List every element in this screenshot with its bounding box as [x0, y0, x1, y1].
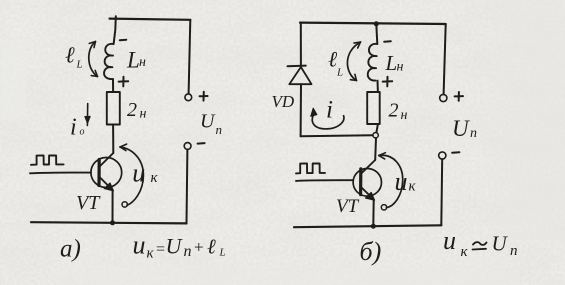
pulse train symbol (a)	[31, 155, 64, 164]
svg-text:к: к	[147, 246, 155, 262]
terminal - (b)	[439, 152, 446, 159]
label U_П (b)	[452, 116, 477, 141]
diode VD (b): cathode bar	[288, 65, 306, 68]
transistor VT (a): collector stroke	[100, 153, 114, 167]
i0 current arrow (a)	[85, 104, 90, 126]
transistor VT (b): emitter stroke with arrow	[361, 187, 375, 200]
wire: diode branch upper (b)	[300, 23, 302, 66]
transistor VT (b): collector stroke	[361, 160, 375, 174]
svg-text:L: L	[126, 48, 140, 73]
svg-text:VT: VT	[336, 196, 360, 217]
svg-text:п: п	[470, 126, 477, 141]
label VT (b)	[336, 196, 360, 217]
wire: - terminal to bottom rail (b)	[440, 159, 443, 225]
label i (b)	[326, 97, 333, 124]
svg-text:к: к	[151, 170, 159, 186]
diode VD (b): triangle	[289, 67, 311, 84]
wire: bottom rail (a)	[31, 222, 187, 223]
label e_L (a)	[65, 43, 83, 71]
svg-text:п: п	[216, 122, 223, 137]
svg-text:L: L	[385, 51, 398, 75]
svg-text:VT: VT	[76, 192, 101, 214]
svg-text:н: н	[401, 108, 408, 123]
wire: top junction to inductor (b)	[376, 24, 377, 44]
svg-text:U: U	[452, 116, 470, 141]
svg-text:=: =	[156, 241, 165, 258]
transistor VT (a): emitter stroke with arrow	[100, 177, 114, 191]
wire: bottom rail (b)	[294, 225, 441, 227]
svg-text:L: L	[76, 59, 83, 71]
plus polarity sign below inductor (b)	[383, 77, 393, 87]
svg-text:н: н	[140, 107, 147, 122]
e_L arc arrow (a)	[89, 42, 98, 77]
svg-text:а): а)	[60, 236, 81, 263]
e_L arc arrow (b)	[347, 42, 360, 81]
svg-text:u: u	[395, 167, 408, 196]
transistor VT (a): body circle	[91, 158, 122, 188]
label U_П (a)	[200, 111, 222, 138]
plus sign at terminal (a)	[200, 92, 208, 101]
svg-text:VD: VD	[272, 92, 295, 111]
value label z_H (a)	[127, 99, 147, 122]
value label L_H (b)	[385, 51, 404, 75]
label VT (a)	[76, 192, 101, 214]
svg-text:н: н	[397, 60, 404, 75]
svg-text:к: к	[409, 179, 417, 195]
resistor z_H (a)	[107, 92, 120, 125]
svg-text:o: o	[80, 127, 85, 138]
svg-text:2: 2	[389, 100, 399, 122]
junction dot bottom (a)	[110, 220, 115, 225]
wire: resistor to collector (a)	[112, 125, 114, 154]
svg-text:н: н	[139, 55, 146, 70]
svg-text:u: u	[133, 231, 146, 260]
label e_L (b)	[328, 47, 343, 79]
inductor L_H (a): coil	[104, 44, 114, 79]
svg-text:U: U	[166, 234, 184, 259]
pulse train symbol (b)	[296, 163, 325, 173]
svg-text:i: i	[326, 97, 333, 124]
svg-text:+: +	[194, 238, 204, 257]
svg-text:L: L	[336, 67, 343, 79]
wire: emitter to bottom rail (b)	[372, 199, 374, 226]
svg-text:ℓ: ℓ	[65, 43, 75, 68]
formula u_K = U_П + e_L	[133, 231, 226, 262]
node circle at freewheel junction (b)	[373, 133, 378, 138]
wire: top rail (b)	[300, 23, 446, 24]
transistor VT (a): base bar	[97, 160, 100, 186]
svg-text:ℓ: ℓ	[207, 235, 216, 259]
label u_K (a)	[132, 159, 158, 188]
formula u_K = U_П (b)	[443, 226, 518, 260]
wire: right vertical top to + terminal (b)	[444, 24, 446, 94]
wire: emitter to bottom rail (a)	[112, 190, 114, 223]
wire: resistor to node (b)	[376, 124, 378, 133]
wire: inductor to resistor (b)	[377, 81, 379, 92]
terminal + (a)	[185, 94, 192, 101]
caption a)	[60, 236, 81, 263]
svg-text:L: L	[219, 247, 226, 259]
u_K arc arrow around transistor (a)	[120, 144, 143, 207]
svg-text:u: u	[443, 226, 456, 255]
base wire from pulse source (b)	[296, 179, 353, 182]
wire: right vertical top to + terminal (a)	[189, 20, 191, 94]
svg-text:б): б)	[360, 237, 382, 266]
junction dot bottom (b)	[371, 224, 376, 229]
wire: left vertical from rail to inductor (a)	[114, 16, 116, 44]
svg-text:U: U	[200, 111, 216, 133]
label VD (b)	[272, 92, 295, 111]
minus sign at terminal (a)	[198, 142, 205, 145]
transistor VT (b): base bar	[359, 169, 362, 195]
label i0 (a)	[70, 115, 85, 141]
resistor z_H (b)	[367, 92, 380, 124]
terminal + (b)	[440, 94, 447, 101]
value label L_H (a)	[126, 48, 146, 73]
wire: - terminal to bottom rail (a)	[186, 150, 189, 224]
wire: top rail (a)	[110, 19, 191, 20]
svg-text:2: 2	[127, 99, 137, 121]
svg-text:i: i	[70, 115, 77, 141]
inductor L_H (b): coil	[368, 44, 378, 81]
value label z_H (b)	[389, 100, 408, 124]
minus polarity sign above inductor (b)	[384, 40, 391, 43]
label u_K (b)	[395, 167, 417, 196]
svg-text:к: к	[461, 244, 469, 260]
transistor VT (b): body circle	[353, 169, 381, 197]
junction dot top (b)	[374, 21, 379, 26]
caption b)	[360, 237, 382, 266]
plus sign at terminal (b)	[455, 92, 463, 101]
approx-equal sign in formula (b)	[473, 242, 487, 249]
svg-text:u: u	[132, 159, 145, 188]
u_K arc arrow around transistor (b)	[379, 153, 403, 210]
i loop current arc arrow (b)	[311, 108, 344, 129]
wire: node to collector (b)	[374, 138, 377, 160]
svg-text:п: п	[184, 243, 192, 260]
svg-text:п: п	[510, 243, 518, 259]
wire: bottom of freewheel loop to node (b)	[301, 134, 373, 137]
minus sign at terminal (b)	[452, 151, 459, 154]
svg-text:U: U	[492, 232, 509, 256]
wire: inductor to resistor (a)	[112, 79, 114, 92]
minus polarity sign above inductor (a)	[120, 39, 127, 42]
wire: diode branch lower (b)	[300, 84, 302, 136]
base wire from pulse source (a)	[30, 172, 91, 175]
plus polarity sign below inductor (a)	[119, 77, 129, 87]
terminal - (a)	[184, 143, 191, 150]
